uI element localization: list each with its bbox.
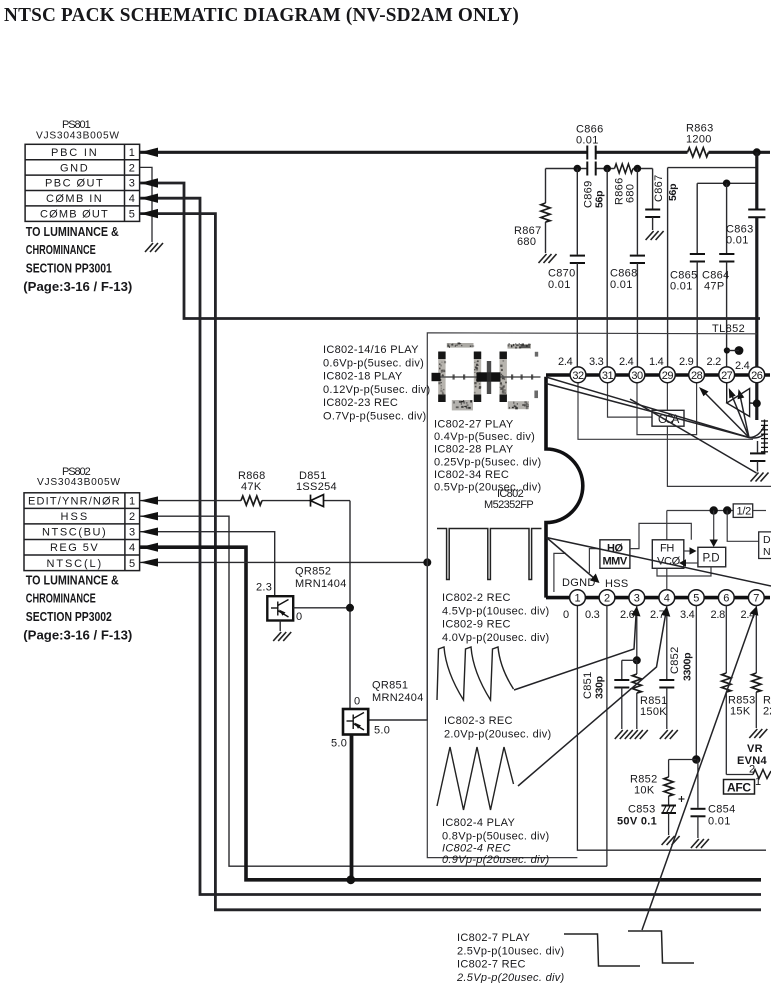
svg-text:0.6Vp-p(5usec. div): 0.6Vp-p(5usec. div) [323,357,424,369]
svg-text:330p: 330p [594,676,606,699]
ground at TL852 cap [751,473,769,482]
svg-text:2: 2 [604,593,610,605]
block 1/2 [733,504,753,518]
node dot on thick vertical for trap [753,399,761,407]
svg-text:NTSC(BU): NTSC(BU) [42,527,106,539]
capacitor C870 0.01 (shunt under dot1, line continues to IC pin32) [576,169,578,255]
svg-text:29: 29 [662,370,674,382]
wire 1/2 rail with dots [667,510,733,512]
annotation IC802-2/9 block [442,592,550,644]
svg-text:IC802-27 PLAY: IC802-27 PLAY [434,419,514,431]
svg-text:0.25Vp-p(5usec. div): 0.25Vp-p(5usec. div) [434,456,542,468]
svg-text:IC802-2 REC: IC802-2 REC [442,592,511,604]
IC bottom row pin circles [570,590,765,606]
wire QR851 bottom (thick) to REG5V bus [350,735,354,882]
annotation IC802-14/16 PLAY block [323,344,431,423]
svg-text:CØMB ØUT: CØMB ØUT [40,209,108,221]
diode D851 1SS254 [311,495,324,507]
svg-text:2.8: 2.8 [711,609,726,621]
svg-text:C854: C854 [708,804,736,816]
wire IC pin5 drop [695,605,697,760]
svg-text:56p: 56p [594,191,606,208]
arrow pulse callout into pin2 [547,538,596,580]
arrowhead into PS801 pin4 [140,194,158,203]
svg-text:1SS254: 1SS254 [296,481,337,493]
svg-text:3.3: 3.3 [589,356,604,368]
block P.D [698,547,726,567]
capacitor C868 0.01 (shunt under dot3, line continues to IC pin30) [636,169,638,255]
block GCA [652,410,684,426]
arrowhead into PS802 pin3 [140,528,158,536]
svg-text:(Page:3-16 / F-13): (Page:3-16 / F-13) [23,627,132,642]
svg-text:C852: C852 [669,647,681,675]
wire internal pin30-pin28 link [637,383,697,435]
node dots on 1/2 rail [710,506,718,514]
svg-text:VJS3043B005W: VJS3043B005W [37,477,120,488]
wire internal pin32 riser to fan rail [578,383,753,439]
svg-text:C868: C868 [610,268,638,280]
svg-text:IC802-9 REC: IC802-9 REC [442,619,511,631]
wire dot2 down to IC pin31 [606,169,608,368]
node: junction dot bus / C863 branch [753,148,761,156]
svg-text:0.01: 0.01 [726,235,749,247]
capacitor C853 50V 0.1 electrolytic to ground [668,796,670,805]
IC802 outline (top edge, left edge with notch, bottom edge) [546,375,770,598]
svg-text:4: 4 [664,593,670,605]
svg-text:5: 5 [693,593,699,605]
svg-text:0.4Vp-p(5usec. div): 0.4Vp-p(5usec. div) [434,431,535,443]
wire PBC IN bus (thick, pin1 to right edge) [140,151,770,154]
capacitor C863 0.01 (series in thick vertical) [748,210,765,218]
svg-text:PBC ØUT: PBC ØUT [45,178,103,190]
svg-text:2.5Vp-p(20usec. div): 2.5Vp-p(20usec. div) [456,972,565,983]
svg-text:TO LUMINANCE &: TO LUMINANCE & [26,573,119,588]
block AFC [724,780,755,795]
svg-text:O.7Vp-p(5usec. div): O.7Vp-p(5usec. div) [323,411,427,423]
svg-text:IC802-4 PLAY: IC802-4 PLAY [442,817,515,829]
wire NTSC(BU) pin3 to QR852 base [140,532,275,597]
svg-text:D: D [763,534,771,546]
capacitor C854 0.01 to ground [697,760,699,808]
resistor R854 from pin7 to ground (cut at edge) [755,605,757,673]
callout triangle to pin4 [518,612,666,786]
arrow P.D to FH VCO [683,562,698,564]
svg-text:GND: GND [60,162,88,174]
svg-text:0: 0 [354,696,360,708]
svg-text:27: 27 [721,370,733,382]
svg-text:0.9Vp-p(20usec. div): 0.9Vp-p(20usec. div) [442,854,550,866]
svg-text:2.3: 2.3 [256,582,272,594]
transistor QR851 MRN2404 [343,709,368,735]
callout square wave to pin7 [642,611,755,930]
resistor R868 47K [241,496,262,505]
capacitor C852 3300p from pin4 to ground [666,605,668,679]
svg-text:56p: 56p [667,184,679,201]
connector PS801 label [36,119,119,142]
svg-text:47P: 47P [704,281,724,293]
wire node left to R852 [669,759,697,761]
wire HO MMV loop over FH VCO [630,523,691,548]
voltages bottom row [563,609,755,621]
ground at PS801 pin2 [145,243,163,252]
svg-text:IC802-7 REC: IC802-7 REC [457,959,526,971]
svg-text:(Page:3-16 / F-13): (Page:3-16 / F-13) [23,279,132,294]
wire junction down then left to QR851 [368,562,427,720]
svg-text:7: 7 [753,593,759,605]
svg-text:0.01: 0.01 [708,816,731,828]
node dot pin5 branch [692,755,700,763]
wire dot2 down to edge block [727,511,759,542]
wire IC pin3 drop to node [636,605,638,660]
arrow fan to pin27 [731,392,750,438]
svg-text:M52352FP: M52352FP [484,499,534,511]
wire COMB OUT: pin5 down then right along bottom [140,214,761,910]
wire QR852 emitter to junction with QR851 line [293,607,350,609]
annotation IC802-3 block [444,715,552,740]
arrowhead into PS801 pin5 [140,209,158,218]
svg-text:1: 1 [129,147,135,159]
svg-text:TL852: TL852 [712,323,745,335]
annotation IC802-4 block [442,817,550,866]
wire node left to C851 [622,659,637,661]
svg-text:2: 2 [129,511,135,523]
connector PS801 pin labels [40,147,135,221]
svg-text:3.4: 3.4 [680,609,695,621]
wire PS801 pin2 to ground [140,167,152,242]
wire pin4 internal riser [666,511,668,591]
line pulse callout long to right [547,538,771,587]
svg-text:5.0: 5.0 [331,738,347,750]
svg-text:IC802-34 REC: IC802-34 REC [434,469,509,481]
svg-text:3: 3 [634,593,640,605]
resistor R852 10K [668,760,670,778]
wire thick vertical x=757 with C863 in series [755,152,758,208]
svg-text:10K: 10K [634,785,655,797]
svg-text:2.4: 2.4 [558,356,573,368]
svg-text:31: 31 [602,370,614,382]
wire HSS pin2 down-right path [140,516,607,866]
wire NTSC(L) pin5 to junction [140,561,428,563]
curl from fan point to edge ticks [749,426,765,438]
svg-text:C851: C851 [582,672,594,700]
potentiometer VR EVN4 (cut at edge) [753,770,771,779]
svg-text:C853: C853 [628,804,656,816]
node dot on REG5V bus [346,875,355,884]
arrow dot1 down into P.D [713,511,715,544]
svg-text:2.9: 2.9 [679,356,694,368]
resistor R851 150K to ground [636,660,638,674]
svg-text:32: 32 [572,370,584,382]
svg-text:NTSC PACK SCHEMATIC DIAGRAM (N: NTSC PACK SCHEMATIC DIAGRAM (NV-SD2AM ON… [4,4,519,26]
arrowhead into PS802 pin4 [140,543,158,552]
capacitor C865 0.01 (in pin28 riser) [696,183,698,253]
wire internal pin29 drop to right [667,383,771,486]
svg-text:DGND: DGND [562,577,596,589]
svg-text:3: 3 [129,178,135,190]
wire internal pin31 elbow [608,383,653,417]
svg-text:IC802-28 PLAY: IC802-28 PLAY [434,444,514,456]
svg-text:MRN2404: MRN2404 [372,692,424,704]
svg-text:0: 0 [563,609,569,621]
waveform triangle IC802-4 [437,747,514,810]
waveform sawtooth IC802-3 [437,647,514,700]
IC top row pin circles [570,367,765,383]
svg-text:3: 3 [129,527,135,539]
svg-text:2.0Vp-p(20usec. div): 2.0Vp-p(20usec. div) [444,728,552,740]
svg-text:1: 1 [574,593,580,605]
svg-text:4.5Vp-p(10usec. div): 4.5Vp-p(10usec. div) [442,605,550,617]
svg-text:1: 1 [129,496,135,508]
svg-text:PS801: PS801 [62,119,91,131]
node dot C864 top [723,180,731,188]
svg-text:0.8Vp-p(50usec. div): 0.8Vp-p(50usec. div) [442,830,550,842]
annotation IC802-27/28/34 block [434,419,542,494]
svg-text:0: 0 [296,611,302,623]
svg-text:REG 5V: REG 5V [50,542,98,554]
svg-text:EDIT/YNR/NØR: EDIT/YNR/NØR [28,496,120,508]
svg-text:CHROMINANCE: CHROMINANCE [26,591,96,606]
voltages top row [558,356,750,372]
callout sawtooth to pin3 [514,612,636,690]
svg-text:150K: 150K [640,706,667,718]
capacitor at TL852 to ground [757,441,759,452]
wire pin6 to VR terminal [726,774,753,776]
connector PS802 pin labels [28,496,135,570]
svg-text:2.4: 2.4 [619,356,634,368]
capacitor C869 56p (series in second rail) [587,162,595,176]
wire QR852 bottom to ground [279,621,281,632]
svg-text:C870: C870 [548,268,576,280]
wire EDIT/YNR/NOR pin1 with R868 and D851 [140,501,350,709]
svg-text:0.12Vp-p(5usec. div): 0.12Vp-p(5usec. div) [323,384,431,396]
transistor QR852 MRN1404 [267,596,293,620]
wire IC pin2 drop [606,605,608,866]
note TO LUMINANCE & CHROMINANCE SECTION PP3002 [23,573,132,643]
svg-text:1200: 1200 [686,134,712,146]
svg-text:VR: VR [747,743,763,755]
svg-text:15K: 15K [730,706,751,718]
svg-text:P.D: P.D [703,553,720,565]
wire from 1/2 box to right edge [753,510,766,512]
wire COMB IN: pin4 down then right along bottom [140,198,761,894]
svg-text:5: 5 [129,209,135,221]
svg-text:N: N [763,546,771,558]
waveform photo (scope picture) [432,343,541,411]
svg-text:HSS: HSS [61,511,88,523]
svg-text:IC802-4 REC: IC802-4 REC [442,843,511,855]
svg-text:IC802-3 REC: IC802-3 REC [444,715,513,727]
node dot pin3 [633,656,641,664]
svg-text:2.5Vp-p(10usec. div): 2.5Vp-p(10usec. div) [457,945,565,957]
node dot NTSC(L) junction [423,558,431,566]
svg-text:30: 30 [631,370,643,382]
node dots on second rail [574,165,582,173]
svg-text:QR851: QR851 [372,680,408,692]
waveform head-switch pulses IC802-2 [437,529,542,580]
svg-text:680: 680 [517,236,536,248]
block HO MMV [600,540,630,569]
svg-text:2: 2 [129,162,135,174]
trap TL852 triangle symbol [727,383,757,417]
block FH VCO [652,540,684,569]
arrowhead into PS802 pin2 [140,512,158,520]
arrowhead into PS802 pin1 [140,496,158,504]
svg-text:2.2: 2.2 [707,356,722,368]
edge tick connector x=764.5 [761,420,768,454]
wire REG 5V pin4 (thick) down and right along bottom [140,547,761,880]
arrow FH VCO to P.D [684,550,692,552]
svg-text:5.0: 5.0 [374,725,390,737]
note TO LUMINANCE & CHROMINANCE SECTION PP3001 [23,224,132,294]
wire rail y=183.3 C865/C864 [697,182,757,184]
wire second rail y=168.5 [546,168,653,170]
svg-text:IC802-23 REC: IC802-23 REC [323,397,398,409]
svg-text:22: 22 [763,706,771,718]
svg-text:HSS: HSS [605,578,629,590]
svg-text:QR852: QR852 [295,566,331,578]
svg-text:680: 680 [625,184,637,203]
resistor R867 680 to ground [545,169,547,204]
svg-text:4.0Vp-p(20usec. div): 4.0Vp-p(20usec. div) [442,632,550,644]
svg-text:IC802-14/16 PLAY: IC802-14/16 PLAY [323,344,419,356]
capacitor C864 47P (in pin27 riser) [726,183,728,253]
svg-text:PBC IN: PBC IN [51,147,97,159]
svg-text:0.01: 0.01 [548,279,571,291]
svg-text:SECTION PP3001: SECTION PP3001 [26,260,112,275]
svg-text:1.4: 1.4 [649,356,664,368]
connector PS802 body [24,493,140,571]
callout box around waveforms (left edge / top edge / bottom edge) [427,333,757,858]
svg-text:CHROMINANCE: CHROMINANCE [26,242,96,257]
capacitor C851 330p to ground [621,660,623,679]
resistor R853 15K from pin6 [725,605,727,673]
svg-text:50V 0.1: 50V 0.1 [617,816,657,828]
node dot [346,604,354,612]
svg-text:CØMB IN: CØMB IN [46,193,102,205]
svg-text:26: 26 [751,370,763,382]
wire under P.D hook [657,567,711,576]
block at right edge (cut off) [759,532,771,559]
arrow fan to pin27 second [740,393,750,438]
wire HSS stub under MMV [554,553,566,592]
capacitor C867 56p to ground [652,169,654,209]
resistor R866 680 (series in second rail) [615,164,634,173]
svg-text:0.5Vp-p(20usec. div): 0.5Vp-p(20usec. div) [434,482,542,494]
wire rail y=167.6 from pin29 riser to thick vertical [668,167,757,169]
svg-text:AFC: AFC [727,781,751,795]
svg-text:0.3: 0.3 [585,609,600,621]
svg-text:6: 6 [723,593,729,605]
svg-text:28: 28 [691,370,703,382]
arrowhead into PS801 pin3 [140,178,158,187]
svg-text:MRN1404: MRN1404 [295,578,347,590]
wire PBC OUT: pin3 down then right as y=318 bus [140,183,760,319]
connector PS801 body [25,144,140,221]
arrowhead into PS801 pin1 [140,148,158,157]
resistor R863 (series in bus) [688,148,709,157]
svg-text:4: 4 [129,542,135,554]
svg-text:VJS3043B005W: VJS3043B005W [36,131,119,142]
ground at QR852 [273,632,291,641]
svg-text:1: 1 [755,776,761,788]
svg-text:TO LUMINANCE &: TO LUMINANCE & [26,224,119,239]
arrow fan to pin28 [703,391,750,438]
diagonal callout lines from photo corner to fan point [546,377,757,473]
svg-text:0.01: 0.01 [610,279,633,291]
wire DGND rail from IC pin1 [577,605,766,850]
waveform square IC802-7 [564,931,694,966]
svg-text:0.01: 0.01 [670,281,693,293]
svg-text:IC802-18 PLAY: IC802-18 PLAY [323,371,403,383]
svg-text:1/2: 1/2 [737,506,752,518]
svg-text:C867: C867 [653,175,665,203]
annotation IC802-7 block [456,932,565,983]
svg-text:2: 2 [749,764,755,776]
svg-text:4: 4 [129,193,135,205]
arrowhead into PS802 pin5 [140,558,158,566]
wire HO MMV left stub [589,549,600,573]
svg-text:IC802-7 PLAY: IC802-7 PLAY [457,932,530,944]
node dots above pin27 [724,347,730,353]
svg-text:2.4: 2.4 [735,360,750,372]
capacitor C866 (series in PBC IN bus) [587,146,595,160]
svg-text:47K: 47K [241,481,262,493]
svg-text:3300p: 3300p [682,653,694,681]
svg-text:MMV: MMV [603,556,628,568]
wire riser IC pin29 [667,168,669,368]
svg-text:0.01: 0.01 [576,135,599,147]
svg-text:5: 5 [129,558,135,570]
svg-text:SECTION PP3002: SECTION PP3002 [26,609,112,624]
svg-text:FH: FH [660,543,674,555]
